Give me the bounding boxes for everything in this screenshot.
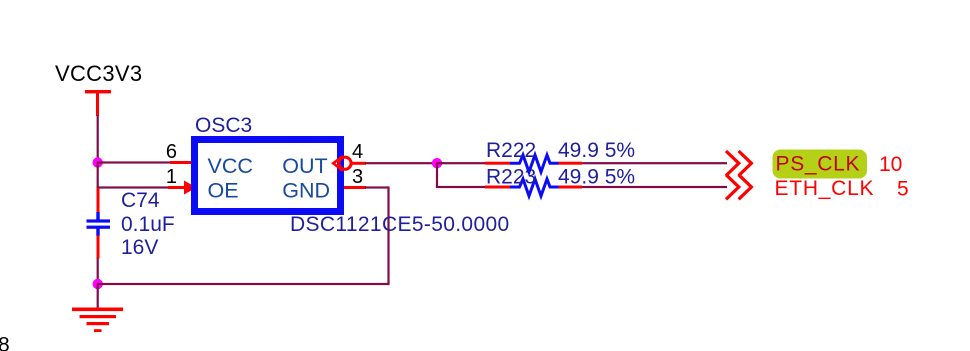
svg-text:GND: GND [282,178,330,202]
wire pin 4 to junction C [365,162,438,164]
wire capacitor to junction B [97,258,99,284]
node B junction dot [93,279,103,289]
wire R222 to top off-page connector [582,162,727,164]
svg-text:5: 5 [897,178,909,201]
ground [72,284,123,332]
pin 4 stub (red) [351,162,366,165]
svg-text:R223: R223 [486,166,536,189]
bottom return wire junction B to pin-3 riser [97,283,390,285]
resistor R222 [485,155,582,172]
net label PS_CLK highlight [773,150,868,179]
wire branch corner to pin 1 [97,186,169,188]
svg-text:0.1uF: 0.1uF [121,213,175,236]
svg-text:10: 10 [879,153,902,176]
wire down-corner to R223 [436,186,486,188]
svg-text:6: 6 [166,141,177,163]
node A junction dot [93,157,103,167]
svg-text:1: 1 [166,166,177,188]
svg-text:49.9 5%: 49.9 5% [558,139,635,162]
pin 4 clock-output symbol: chevron and bubble [333,156,351,171]
wire junction A down to pin-1 branch corner [97,162,99,189]
svg-text:OUT: OUT [282,154,327,178]
svg-text:DSC1121CE5-50.0000: DSC1121CE5-50.0000 [290,213,510,236]
pin 6 stub (red) [170,161,192,164]
svg-text:OE: OE [208,178,239,202]
svg-text:ETH_CLK: ETH_CLK [775,177,875,200]
power symbol VCC3V3 [55,61,142,116]
wire R223 to bottom off-page connector [582,186,727,188]
svg-text:16V: 16V [121,236,158,259]
svg-text:VCC3V3: VCC3V3 [55,61,142,86]
svg-text:4: 4 [352,141,363,163]
svg-text:PS_CLK: PS_CLK [776,153,861,176]
off-page connector chevron PS_CLK [726,151,751,176]
svg-text:8: 8 [0,334,10,351]
svg-text:3: 3 [352,166,363,188]
svg-text:49.9 5%: 49.9 5% [558,166,635,189]
svg-text:C74: C74 [121,189,160,212]
wire junction C down to R223 row [436,163,438,188]
pin 1 stub with input arrow (red) [168,181,197,195]
svg-text:OSC3: OSC3 [195,114,252,137]
oscillator OSC3 body [195,140,341,212]
svg-text:VCC: VCC [208,154,253,178]
svg-text:R222: R222 [486,139,536,162]
pin 3 stub (red) [344,186,366,189]
wire junction A to pin 6 [97,161,170,163]
capacitor C74 [87,188,111,259]
wire junction C to R222 [437,162,486,164]
pin-3 riser wire (vertical) [387,187,389,285]
node C junction dot [432,158,442,168]
resistor R223 [485,179,582,196]
wire from VCC3V3 down to junction A [97,115,99,163]
off-page connector chevron ETH_CLK [726,175,751,200]
wire pin 3 to riser [365,186,390,188]
